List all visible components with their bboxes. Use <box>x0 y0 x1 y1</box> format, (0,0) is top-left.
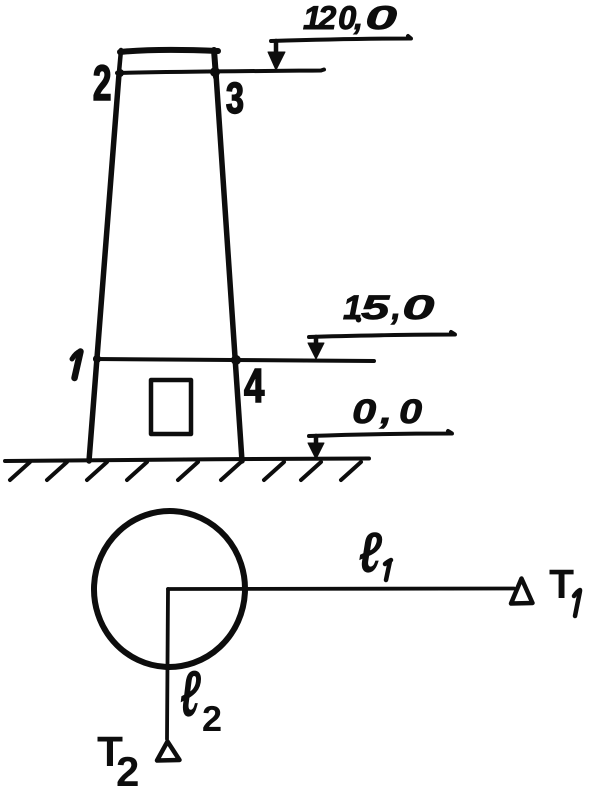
label T1 <box>550 570 574 598</box>
level line through points 1-4 (elev 15) <box>95 359 374 361</box>
label node 4 <box>245 369 265 402</box>
station T1 triangle <box>511 579 533 604</box>
chimney top cap <box>120 50 218 52</box>
ground line <box>5 459 369 462</box>
node 4 dot <box>231 355 241 365</box>
label T2 <box>98 737 123 766</box>
label l2 <box>181 671 201 717</box>
chimney left side <box>89 74 119 461</box>
label 0,0 <box>354 399 422 428</box>
label 15,0 <box>344 295 435 324</box>
node 3 dot <box>210 67 220 77</box>
chimney right side <box>216 74 242 461</box>
elevation mark 120,0 leader <box>271 36 411 41</box>
sight line to T1 <box>168 587 514 591</box>
node 2 dot <box>116 69 124 77</box>
label node 2 <box>94 65 110 100</box>
sight line to T2 <box>167 589 168 739</box>
label node 3 <box>227 82 243 113</box>
node 1 dot <box>93 355 101 363</box>
ground hatching <box>10 462 361 480</box>
elevation mark 0,0 leader <box>309 431 452 436</box>
elevation mark 15,0 leader <box>309 332 455 337</box>
level line through points 2-3 (elev 120) <box>117 70 324 74</box>
label node 1 <box>72 351 81 378</box>
plan view: chimney circle <box>90 507 249 671</box>
window opening <box>151 380 191 434</box>
label l1 <box>359 532 382 572</box>
label 120,0 <box>304 6 397 34</box>
station T2 triangle <box>157 742 180 761</box>
